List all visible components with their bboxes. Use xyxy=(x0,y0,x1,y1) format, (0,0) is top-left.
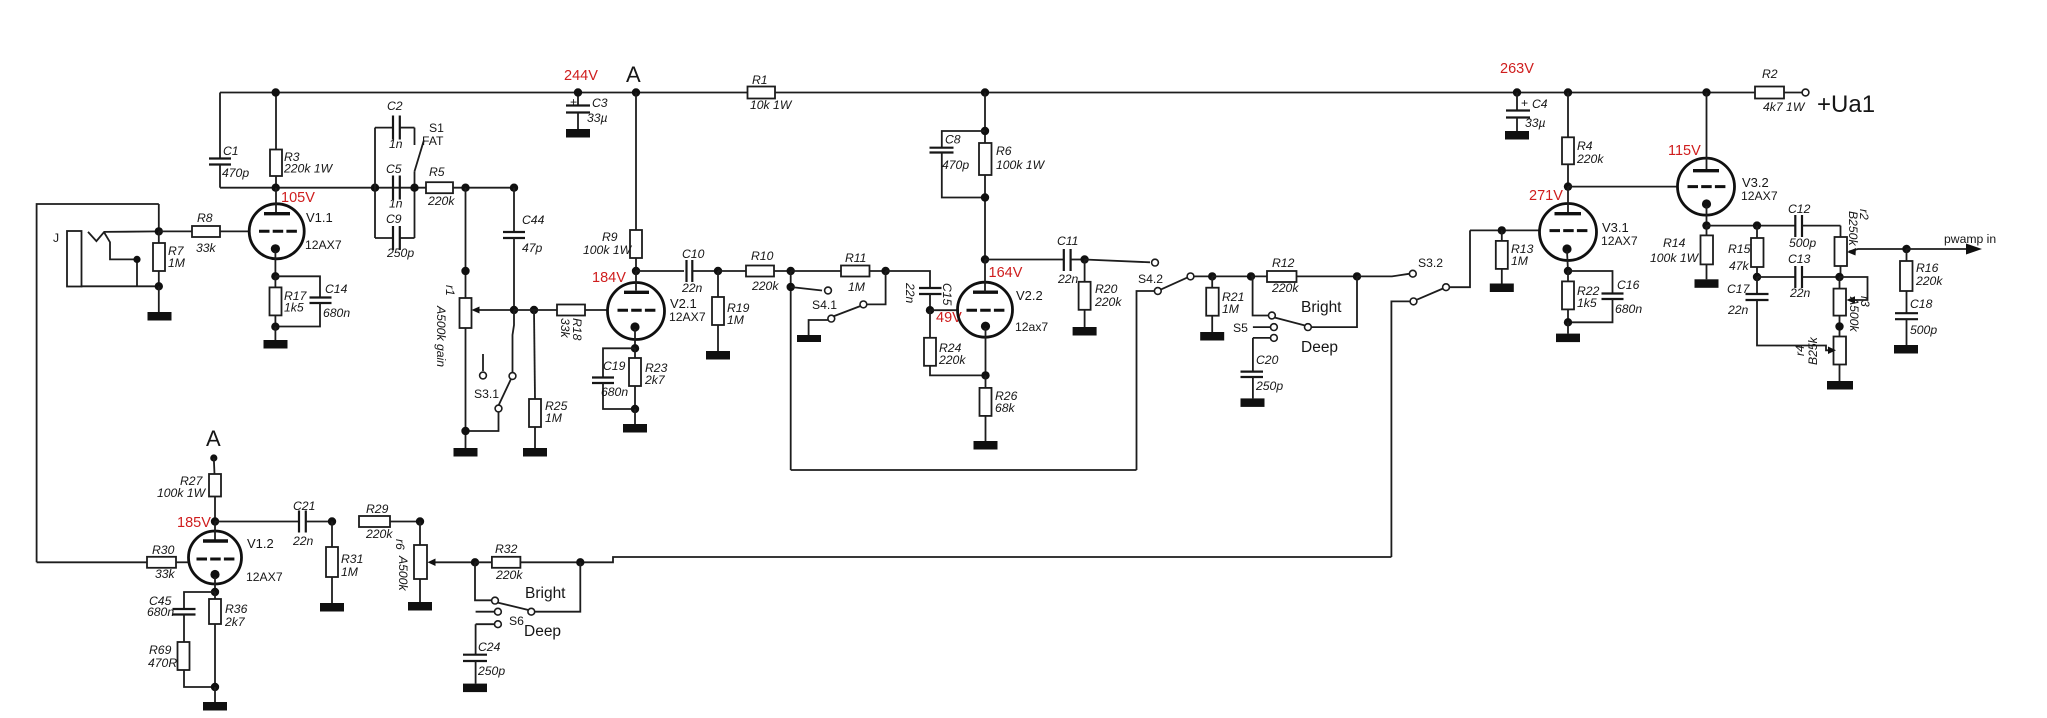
svg-text:A: A xyxy=(206,426,221,451)
capacitor C9 xyxy=(375,212,415,260)
resistor R3 xyxy=(270,93,334,188)
svg-text:C18: C18 xyxy=(1910,297,1933,311)
svg-text:R4: R4 xyxy=(1577,139,1593,153)
svg-text:C2: C2 xyxy=(387,99,403,113)
svg-text:R69: R69 xyxy=(149,643,172,657)
wire anode V2.2 xyxy=(984,260,986,293)
input jack J xyxy=(53,231,82,287)
triode V1.2 xyxy=(189,522,283,593)
svg-text:Deep: Deep xyxy=(524,623,561,640)
svg-text:22n: 22n xyxy=(1727,303,1749,317)
node R32 left xyxy=(471,558,479,566)
ground below R23 xyxy=(623,409,647,433)
svg-text:R11: R11 xyxy=(845,251,866,265)
svg-text:184V: 184V xyxy=(592,270,626,286)
svg-text:220k: 220k xyxy=(1094,295,1122,309)
svg-text:33k: 33k xyxy=(196,241,217,255)
svg-text:22n: 22n xyxy=(1057,272,1079,286)
svg-text:C12: C12 xyxy=(1788,202,1811,216)
svg-text:A500k: A500k xyxy=(1847,296,1861,332)
switch S4.2 xyxy=(1085,259,1213,470)
svg-text:1k5: 1k5 xyxy=(1577,296,1597,310)
svg-text:J: J xyxy=(53,231,59,245)
svg-text:220k: 220k xyxy=(938,353,966,367)
node 49V grid xyxy=(926,306,934,314)
wire rail to R6 xyxy=(984,93,986,144)
node cap bank right xyxy=(410,184,418,192)
svg-text:R20: R20 xyxy=(1095,282,1118,296)
wire S4.2 out to R12 xyxy=(1212,275,1267,277)
wire V3.1 grid xyxy=(1470,229,1540,231)
svg-text:1k5: 1k5 xyxy=(284,301,304,315)
svg-text:R8: R8 xyxy=(197,211,213,225)
resistor R4 xyxy=(1562,93,1604,187)
capacitor C44 xyxy=(503,188,545,310)
node V3.1 cathode xyxy=(1564,267,1572,275)
capacitor C3 electrolytic xyxy=(566,93,608,130)
node R29 right xyxy=(416,517,424,525)
wire long feedback bottom xyxy=(580,557,1391,562)
wire jack sleeve xyxy=(81,285,158,287)
node box loop top xyxy=(787,283,795,291)
svg-text:C5: C5 xyxy=(386,162,402,176)
wire top supply rail xyxy=(220,92,1802,94)
node 185V xyxy=(211,517,219,525)
resistor R11 xyxy=(791,251,886,294)
ground below R17 xyxy=(264,327,288,349)
capacitor C8 xyxy=(930,131,986,198)
node A bottom xyxy=(210,454,217,461)
svg-text:B25k: B25k xyxy=(1806,336,1820,365)
node C11 right xyxy=(1080,255,1088,263)
resistor R9 xyxy=(583,93,642,272)
svg-text:V1.1: V1.1 xyxy=(306,210,333,225)
svg-text:10k 1W: 10k 1W xyxy=(750,98,793,112)
node 184V xyxy=(632,267,640,275)
svg-text:R30: R30 xyxy=(152,543,175,557)
potentiometer r2 B250k xyxy=(1835,209,1907,277)
svg-text:500p: 500p xyxy=(1789,236,1816,250)
node S4.2 out xyxy=(1208,272,1216,280)
resistor R6 xyxy=(979,143,1046,260)
node R11 right xyxy=(881,267,889,275)
resistor R10 xyxy=(718,249,791,293)
svg-text:C44: C44 xyxy=(522,213,545,227)
capacitor C4 electrolytic xyxy=(1506,93,1548,132)
svg-text:500p: 500p xyxy=(1910,323,1937,337)
wire channel-2 feed top xyxy=(37,204,159,562)
switch S3.2 xyxy=(1357,230,1470,557)
svg-text:22n: 22n xyxy=(1789,286,1811,300)
capacitor C20 xyxy=(1241,338,1284,399)
svg-text:V1.2: V1.2 xyxy=(247,536,274,551)
svg-text:C11: C11 xyxy=(1057,234,1078,248)
svg-text:R15: R15 xyxy=(1728,242,1751,256)
ground below R21 xyxy=(1200,332,1224,341)
node cap bank left xyxy=(371,184,379,192)
svg-text:470p: 470p xyxy=(222,166,249,180)
svg-text:244V: 244V xyxy=(564,68,598,84)
capacitor C11 xyxy=(985,234,1085,286)
wire 105V line xyxy=(220,187,426,189)
svg-text:220k: 220k xyxy=(751,279,779,293)
wire cathode line xyxy=(1707,225,1796,227)
svg-text:115V: 115V xyxy=(1668,143,1701,159)
svg-text:680n: 680n xyxy=(1615,302,1642,316)
svg-text:R14: R14 xyxy=(1663,236,1686,250)
svg-text:r6: r6 xyxy=(393,539,407,550)
svg-text:12AX7: 12AX7 xyxy=(305,238,342,252)
resistor R29 xyxy=(359,502,420,541)
ground below C20 xyxy=(1241,398,1265,407)
svg-text:R9: R9 xyxy=(602,230,618,244)
svg-text:105V: 105V xyxy=(281,190,315,206)
node C4 on rail xyxy=(1513,88,1521,96)
ground below R22 xyxy=(1556,322,1580,342)
node V3.2 cathode xyxy=(1702,221,1710,229)
svg-text:V2.1: V2.1 xyxy=(670,296,697,311)
node R15 bottom xyxy=(1753,273,1761,281)
resistor R8 xyxy=(159,211,249,255)
node R12 left xyxy=(1247,272,1255,280)
svg-text:470p: 470p xyxy=(942,158,969,172)
resistor R7 xyxy=(153,231,186,286)
node jack tip xyxy=(155,227,163,235)
triode V1.1 xyxy=(249,188,342,277)
capacitor C16 xyxy=(1568,271,1642,322)
node r2 bottom xyxy=(1835,273,1843,281)
svg-text:250p: 250p xyxy=(386,246,414,260)
svg-text:100k 1W: 100k 1W xyxy=(583,243,633,257)
switch S5 xyxy=(1233,276,1357,341)
svg-text:B250k: B250k xyxy=(1846,211,1860,246)
triode V2.2 xyxy=(958,282,1049,375)
ground below R14 xyxy=(1695,279,1719,288)
node R10 right xyxy=(787,267,795,275)
svg-text:C14: C14 xyxy=(325,282,348,296)
capacitor C21 xyxy=(215,499,332,548)
svg-text:C9: C9 xyxy=(386,212,402,226)
svg-text:220k: 220k xyxy=(1576,152,1604,166)
svg-text:220k: 220k xyxy=(1915,274,1943,288)
ground below R13 xyxy=(1490,284,1514,293)
svg-text:33µ: 33µ xyxy=(587,111,608,125)
wire wiper line to R18 xyxy=(514,309,557,311)
node r3 bottom xyxy=(1835,322,1843,330)
node rail-C1 corner xyxy=(219,93,221,159)
svg-text:C3: C3 xyxy=(592,96,608,110)
node C44 bottom xyxy=(510,306,518,314)
svg-text:S5: S5 xyxy=(1233,321,1248,335)
resistor R20 xyxy=(1079,260,1123,328)
wire cap bank right bus xyxy=(414,188,416,238)
svg-text:C24: C24 xyxy=(478,640,501,654)
resistor R18 xyxy=(557,305,608,341)
node R22 bottom xyxy=(1564,318,1572,326)
node R4 top on rail xyxy=(1564,88,1572,96)
svg-text:pwamp in: pwamp in xyxy=(1944,232,1996,246)
capacitor C15 xyxy=(886,271,954,310)
svg-text:Bright: Bright xyxy=(1301,299,1342,316)
svg-text:164V: 164V xyxy=(989,265,1023,281)
capacitor C1 xyxy=(209,144,249,188)
svg-text:1M: 1M xyxy=(341,565,359,579)
svg-text:C10: C10 xyxy=(682,247,705,261)
switch S6 labels xyxy=(524,585,566,640)
svg-text:R1: R1 xyxy=(752,73,768,87)
wire box loop bottom xyxy=(791,469,1137,471)
node R18 left xyxy=(530,306,538,314)
terminal +Ua1 xyxy=(1802,89,1875,118)
capacitor C17 xyxy=(1727,277,1832,350)
svg-text:R12: R12 xyxy=(1272,256,1295,270)
switch S3.1 xyxy=(466,310,516,431)
svg-text:250p: 250p xyxy=(477,664,505,678)
svg-text:12AX7: 12AX7 xyxy=(246,570,283,584)
switch S1 FAT xyxy=(415,121,445,188)
potentiometer r3 A500k xyxy=(1834,277,1873,337)
node R23 bottom xyxy=(631,405,639,413)
ground below R19 xyxy=(706,351,730,360)
wire R5 node down to r1 xyxy=(465,188,467,298)
node S3.1 to ground xyxy=(461,427,469,435)
svg-text:C16: C16 xyxy=(1617,278,1640,292)
resistor R31 xyxy=(326,522,363,604)
resistor R2 xyxy=(1755,67,1806,114)
svg-text:22n: 22n xyxy=(681,281,703,295)
svg-text:R16: R16 xyxy=(1916,261,1939,275)
svg-text:1M: 1M xyxy=(1222,302,1240,316)
resistor R14 xyxy=(1650,226,1713,280)
node C3 on rail xyxy=(574,88,582,96)
svg-text:185V: 185V xyxy=(177,515,211,531)
svg-text:C19: C19 xyxy=(603,359,626,373)
capacitor C13 xyxy=(1757,252,1840,300)
svg-text:C15: C15 xyxy=(940,283,954,306)
svg-text:C1: C1 xyxy=(223,144,239,158)
node C10 right xyxy=(714,267,722,275)
svg-text:12ax7: 12ax7 xyxy=(1015,320,1048,334)
node C8 top xyxy=(981,127,989,135)
wire 271V to V3.2 grid xyxy=(1568,186,1678,188)
capacitor C5 xyxy=(386,162,403,211)
capacitor C10 xyxy=(636,247,718,295)
resistor R16 xyxy=(1900,249,1943,313)
capacitor C2 xyxy=(375,99,415,151)
svg-text:A: A xyxy=(626,62,641,87)
node V3.2 anode on rail xyxy=(1702,88,1710,96)
svg-text:r4: r4 xyxy=(1793,345,1807,356)
resistor R36 xyxy=(209,592,248,687)
capacitor C45 xyxy=(147,592,215,642)
jack tip contact xyxy=(88,231,159,241)
svg-text:S4.2: S4.2 xyxy=(1138,272,1163,286)
ground below C4 xyxy=(1505,131,1529,140)
potentiometer r6 A500k xyxy=(393,522,475,603)
svg-text:C17: C17 xyxy=(1727,282,1751,296)
node R6 top on rail xyxy=(981,88,989,96)
svg-text:100k 1W: 100k 1W xyxy=(157,486,207,500)
svg-text:1M: 1M xyxy=(848,280,866,294)
wire jack tip link xyxy=(158,204,160,231)
potentiometer r1 A500k gain xyxy=(434,285,514,448)
svg-text:Deep: Deep xyxy=(1301,339,1338,356)
node R3 top on rail xyxy=(272,88,280,96)
svg-text:R6: R6 xyxy=(996,144,1012,158)
resistor R21 xyxy=(1206,276,1244,332)
svg-text:33k: 33k xyxy=(558,318,572,339)
triode V3.2 xyxy=(1678,93,1778,226)
svg-text:680n: 680n xyxy=(601,385,628,399)
svg-text:V3.2: V3.2 xyxy=(1742,175,1769,190)
svg-text:S4.1: S4.1 xyxy=(812,298,837,312)
node V2.1 cathode xyxy=(631,344,639,352)
svg-text:R5: R5 xyxy=(429,165,445,179)
svg-text:S1: S1 xyxy=(429,121,444,135)
node C44 top xyxy=(510,184,518,192)
svg-text:C4: C4 xyxy=(1532,97,1548,111)
ground below R7 xyxy=(148,286,172,320)
ground below r1 xyxy=(454,448,478,457)
svg-text:220k 1W: 220k 1W xyxy=(283,162,334,176)
svg-text:R31: R31 xyxy=(341,552,363,566)
ground below V1.2 cathode xyxy=(203,687,227,711)
ground below C24 xyxy=(463,684,487,693)
node jack sleeve xyxy=(155,282,163,290)
node pwamp xyxy=(1902,245,1910,253)
svg-text:R32: R32 xyxy=(495,542,518,556)
svg-text:C20: C20 xyxy=(1256,353,1279,367)
wire pwamp in arrow xyxy=(1907,232,1997,255)
triode V2.1 xyxy=(608,271,706,348)
svg-text:C21: C21 xyxy=(293,499,315,513)
svg-text:R10: R10 xyxy=(751,249,774,263)
resistor R32 xyxy=(475,542,580,582)
node 164V anode xyxy=(981,255,989,263)
svg-text:2k7: 2k7 xyxy=(644,373,666,387)
resistor R26 xyxy=(980,375,1018,441)
svg-text:220k: 220k xyxy=(495,568,523,582)
ground below C18 xyxy=(1894,345,1918,354)
resistor R17 xyxy=(270,276,308,327)
node C8 bottom xyxy=(981,193,989,201)
resistor R19 xyxy=(712,271,750,351)
svg-text:FAT: FAT xyxy=(422,134,444,148)
node V1.2 cathode xyxy=(211,588,219,596)
jack switch contact xyxy=(104,233,140,287)
svg-text:1M: 1M xyxy=(545,411,563,425)
svg-text:R29: R29 xyxy=(366,502,389,516)
node R32 right xyxy=(576,558,584,566)
svg-text:12AX7: 12AX7 xyxy=(1601,234,1638,248)
wire R10 node down xyxy=(790,271,792,470)
svg-text:A500k: A500k xyxy=(396,555,410,591)
capacitor C18 xyxy=(1895,297,1937,345)
resistor R1 xyxy=(748,73,793,112)
svg-text:22n: 22n xyxy=(903,282,917,304)
svg-text:220k: 220k xyxy=(1271,281,1299,295)
svg-text:271V: 271V xyxy=(1529,188,1563,204)
node R36 bottom xyxy=(211,683,219,691)
svg-text:100k 1W: 100k 1W xyxy=(1650,251,1700,265)
svg-text:22n: 22n xyxy=(292,534,314,548)
svg-text:V2.2: V2.2 xyxy=(1016,288,1043,303)
node C21 right xyxy=(328,517,336,525)
svg-text:12AX7: 12AX7 xyxy=(1741,189,1778,203)
node A xyxy=(632,88,640,96)
svg-text:1M: 1M xyxy=(727,313,745,327)
resistor R27 xyxy=(157,458,221,522)
resistor R69 xyxy=(148,642,215,687)
node R12 right xyxy=(1353,272,1361,280)
svg-text:220k: 220k xyxy=(365,527,393,541)
resistor R13 xyxy=(1496,230,1534,283)
svg-text:+Ua1: +Ua1 xyxy=(1817,91,1875,118)
svg-text:1n: 1n xyxy=(389,197,403,211)
ground below r4 xyxy=(1827,381,1853,390)
svg-text:250p: 250p xyxy=(1255,379,1283,393)
capacitor C19 xyxy=(592,348,635,409)
capacitor C14 xyxy=(275,276,350,326)
svg-text:S3.1: S3.1 xyxy=(474,387,499,401)
svg-text:100k 1W: 100k 1W xyxy=(996,158,1046,172)
svg-text:1M: 1M xyxy=(1511,254,1529,268)
svg-text:33µ: 33µ xyxy=(1525,116,1546,130)
wire grid V2.2 xyxy=(930,309,959,311)
svg-text:Bright: Bright xyxy=(525,585,566,602)
svg-text:V3.1: V3.1 xyxy=(1602,220,1629,235)
ground below S4.1 xyxy=(797,335,821,342)
node r1 top xyxy=(461,267,469,275)
ground below C3 xyxy=(566,129,590,138)
ground below R31 xyxy=(320,603,344,612)
resistor R23 xyxy=(629,348,668,409)
switch S4.1 xyxy=(791,271,886,335)
svg-text:A500k gain: A500k gain xyxy=(434,305,448,367)
triode V3.1 xyxy=(1540,187,1638,271)
resistor R25 xyxy=(529,310,568,448)
node R13 top xyxy=(1498,226,1506,234)
svg-text:68k: 68k xyxy=(995,401,1016,415)
svg-text:1n: 1n xyxy=(389,137,403,151)
svg-text:33k: 33k xyxy=(155,567,176,581)
node R5 right xyxy=(461,184,469,192)
wire cap bank left bus xyxy=(374,128,376,238)
svg-text:S6: S6 xyxy=(509,614,524,628)
svg-text:+: + xyxy=(570,95,577,109)
svg-text:12AX7: 12AX7 xyxy=(669,310,706,324)
svg-text:1M: 1M xyxy=(168,256,186,270)
svg-text:47k: 47k xyxy=(1729,259,1750,273)
ground below R20 xyxy=(1073,327,1097,336)
resistor R24 xyxy=(924,310,986,375)
ground below R25 xyxy=(523,448,547,457)
resistor R22 xyxy=(1562,271,1600,322)
svg-text:S3.2: S3.2 xyxy=(1418,256,1443,270)
svg-text:4k7 1W: 4k7 1W xyxy=(1763,100,1806,114)
svg-text:263V: 263V xyxy=(1500,61,1534,77)
potentiometer r4 B25k xyxy=(1793,336,1846,381)
resistor R5 xyxy=(426,165,514,208)
svg-text:220k: 220k xyxy=(427,194,455,208)
ground below R26 xyxy=(974,441,998,450)
svg-text:C13: C13 xyxy=(1788,252,1811,266)
svg-text:470R: 470R xyxy=(148,656,177,670)
switch S5 labels xyxy=(1301,299,1342,356)
svg-text:680n: 680n xyxy=(323,306,350,320)
capacitor C24 xyxy=(463,624,505,683)
svg-text:2k7: 2k7 xyxy=(224,615,246,629)
